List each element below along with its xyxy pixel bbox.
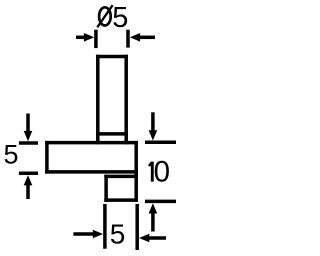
- dimension Ø5 label diameter symbol: [97, 5, 112, 27]
- dimension 5 upper arrowhead: [24, 131, 33, 141]
- plate top edge: [45, 141, 138, 145]
- svg-text:5: 5: [112, 2, 128, 34]
- dimension 10 upper tick: [145, 141, 176, 145]
- shaft bottom edge: [96, 132, 128, 136]
- plate and block shared right edge: [134, 141, 138, 202]
- dimension 5 upper tick: [19, 141, 38, 145]
- dimension 10 lower arrowhead: [149, 203, 158, 213]
- dimension Ø5 right tick: [126, 30, 130, 48]
- dimension 10 lower tick: [145, 200, 176, 204]
- dimension Ø5 left arrowhead: [84, 33, 94, 42]
- dimension 5 bottom right arrowhead: [139, 234, 149, 243]
- dimension 5 bottom left extension line: [103, 204, 107, 249]
- plate left edge: [45, 141, 49, 174]
- dimension 10 upper arrowhead: [149, 130, 158, 140]
- dimension Ø5 left arrow: [76, 36, 85, 40]
- block bottom edge: [104, 198, 138, 202]
- svg-text:5: 5: [3, 140, 18, 170]
- shaft left side line: [96, 55, 100, 145]
- dimension 10 upper arrow: [151, 112, 155, 131]
- dimension 5 lower tick: [19, 172, 38, 176]
- block left edge: [104, 175, 108, 202]
- dimension 5 bottom right extension line: [135, 204, 139, 250]
- dimension 5 bottom right arrow: [148, 236, 166, 240]
- dimension 10 label digit 1: [149, 162, 152, 182]
- dimension Ø5 right arrowhead: [130, 33, 140, 42]
- dimension 10 lower arrow: [151, 212, 155, 231]
- dimension 5 bottom left arrowhead: [93, 230, 103, 239]
- svg-text:0: 0: [154, 156, 170, 189]
- dimension 5 bottom left arrow: [73, 232, 93, 236]
- svg-text:5: 5: [110, 219, 126, 250]
- shaft right side line: [124, 55, 128, 145]
- plate bottom edge: [45, 170, 138, 174]
- block top edge: [104, 175, 138, 179]
- dimension 5 upper arrow: [26, 114, 30, 132]
- dimension 5 lower arrow: [26, 184, 30, 199]
- dimension 5 lower arrowhead: [24, 175, 33, 185]
- dimension Ø5 right arrow: [139, 36, 155, 40]
- dimension Ø5 left tick: [94, 30, 98, 48]
- shaft top edge: [96, 55, 128, 59]
